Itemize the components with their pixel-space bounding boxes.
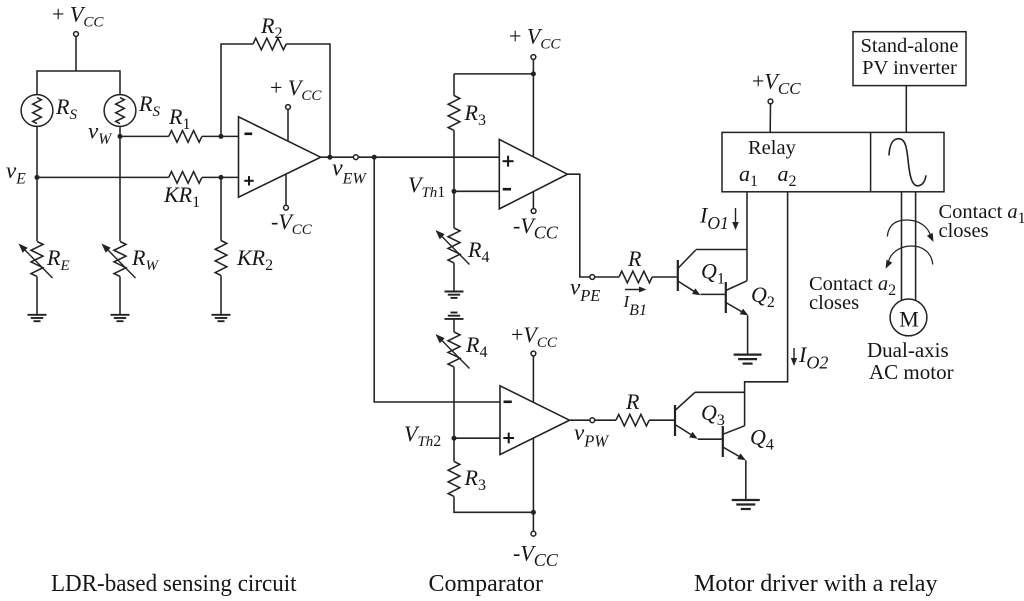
- terminal +Vcc (comparator B): [531, 351, 536, 356]
- U2 -Vcc pin terminal: [531, 209, 536, 214]
- resistor R (lower): [616, 414, 649, 426]
- wire a2 from relay to Q3/Q4 collectors: [745, 192, 788, 426]
- Q3 collector: [675, 392, 695, 410]
- Q2 emitter: [726, 303, 745, 314]
- wire RE to ground: [36, 277, 38, 315]
- R4 lower arrow: [440, 338, 470, 369]
- wire U2 output to vPE: [567, 174, 590, 277]
- motor M circle: [890, 299, 927, 336]
- svg-text:R: R: [627, 246, 642, 271]
- U1 -Vcc pin wire: [285, 175, 287, 206]
- terminal +Vcc (relay): [768, 99, 773, 104]
- svg-text:Comparator: Comparator: [429, 571, 544, 597]
- Q1 collector: [678, 250, 696, 269]
- svg-text:PV inverter: PV inverter: [862, 57, 957, 79]
- wire vEW to junction: [358, 156, 374, 158]
- node vE dot: [35, 175, 40, 180]
- wire PV inverter to relay: [905, 86, 907, 133]
- wire a1 from relay to Q1/Q2 collectors: [746, 192, 748, 281]
- wire vPW to R lower: [595, 419, 616, 421]
- wire R3 upper to VTh1: [453, 131, 455, 192]
- U2 plus sign: [503, 160, 514, 162]
- ground RW: [111, 314, 130, 316]
- wire flipped ground to R4 lower: [453, 319, 455, 332]
- wire +Vcc relay: [769, 104, 771, 133]
- wire Q3 emitter to Q4 base: [698, 438, 722, 440]
- U3 -Vcc pin wire: [532, 439, 534, 532]
- R4 upper arrow: [440, 234, 470, 265]
- transistor Q2 base bar: [725, 282, 727, 313]
- svg-text:Motor driver with a relay: Motor driver with a relay: [694, 571, 938, 597]
- wire R3 lower to -Vcc rail: [454, 497, 533, 513]
- wire U1 output: [321, 156, 354, 158]
- wire R4 upper to ground: [453, 263, 455, 291]
- U3 minus sign: [504, 400, 512, 403]
- wire VTh1 to R4 upper: [453, 191, 455, 228]
- RW arrow: [106, 248, 136, 279]
- IO2 arrow: [793, 348, 795, 361]
- Q1 emitter: [678, 281, 697, 293]
- terminal vEW: [353, 155, 358, 160]
- U1 +Vcc pin wire: [287, 109, 289, 141]
- resistor R3 (lower): [448, 462, 460, 497]
- op-amp U2 triangle: [499, 139, 567, 209]
- LDR RS (west) zigzag: [116, 98, 125, 124]
- Q4 collector: [723, 426, 745, 435]
- wire RW to ground: [119, 277, 121, 315]
- wire +Vcc B down: [532, 356, 534, 402]
- wire VTh1 to minus input A: [454, 190, 499, 192]
- node +Vcc A rail dot: [531, 71, 536, 76]
- wire VTh2 to R3 lower: [453, 438, 455, 461]
- relay box: [722, 132, 944, 191]
- wire +Vcc A down: [532, 59, 534, 157]
- +Vcc terminal (sensing): [74, 32, 79, 37]
- terminal vPW: [590, 418, 595, 423]
- wire U3 output to vPW: [570, 419, 591, 421]
- RE arrow: [23, 248, 53, 279]
- wire R1 to inverting input: [202, 135, 239, 137]
- resistor R1: [169, 131, 202, 143]
- variable resistor RW: [114, 242, 126, 277]
- U1 minus sign: [245, 133, 253, 136]
- LDR RS (west) circle: [104, 95, 136, 127]
- relay AC sine symbol: [889, 139, 926, 186]
- op-amp U1 triangle: [239, 117, 321, 197]
- wire to R3 upper: [453, 74, 455, 96]
- variable resistor R4 (upper): [448, 228, 460, 263]
- wire vPE to R: [595, 276, 619, 278]
- wire R lower to Q3 base: [649, 419, 674, 421]
- wire +Vcc rail to R3a: [454, 73, 533, 75]
- U1 -Vcc pin terminal: [284, 205, 289, 210]
- wire vE to KR1: [37, 176, 169, 178]
- rotation arc (contact a1): [887, 220, 931, 237]
- wire motor shaft left: [901, 192, 903, 301]
- relay box divider: [870, 132, 872, 191]
- resistor R3 (upper): [448, 96, 460, 131]
- svg-text:LDR-based sensing circuit: LDR-based sensing circuit: [51, 571, 297, 597]
- svg-text:closes: closes: [939, 220, 989, 242]
- wire +Vcc down to rail: [75, 36, 77, 71]
- ground R4 upper: [445, 291, 464, 293]
- wire KR2 to ground: [220, 276, 222, 315]
- Q3 emitter: [675, 425, 694, 437]
- wire Q1 emitter to Q2 base: [701, 293, 725, 295]
- wire east branch vertical: [36, 126, 38, 241]
- ground Q4: [732, 499, 760, 501]
- IO1 arrow: [735, 208, 737, 225]
- transistor Q3 base bar: [674, 405, 676, 436]
- svg-text:Dual-axis: Dual-axis: [867, 338, 949, 362]
- resistor R (upper): [619, 271, 652, 283]
- terminal vPE: [590, 275, 595, 280]
- node vW dot: [118, 134, 123, 139]
- Q2 collector: [726, 281, 747, 291]
- node -Vcc rail dot: [531, 510, 536, 515]
- wire Q1 collector rail: [696, 249, 747, 251]
- node vEW junction dot: [372, 155, 377, 160]
- U3 -Vcc terminal: [531, 531, 536, 536]
- svg-text:Stand-alone: Stand-alone: [861, 35, 959, 57]
- wire Q4 emitter to ground: [745, 460, 747, 499]
- wire R4 lower to VTh2: [453, 367, 455, 438]
- wire vW to R1: [120, 135, 169, 137]
- PV inverter box: [853, 32, 966, 86]
- svg-text:AC motor: AC motor: [869, 360, 954, 384]
- transistor Q4 base bar: [722, 426, 724, 457]
- wire vEW to comparator A plus input: [374, 156, 499, 158]
- U1 plus sign: [244, 180, 253, 182]
- LDR RS (east) circle: [21, 95, 53, 127]
- wire Q2 emitter to ground: [747, 315, 749, 353]
- wire west branch vertical: [119, 126, 121, 241]
- op-amp U3 triangle: [500, 386, 570, 455]
- node VTh2 dot: [452, 436, 457, 441]
- node inverting input dot: [219, 134, 224, 139]
- wire feedback top+right: [286, 44, 330, 157]
- ground Q2: [734, 354, 762, 356]
- U1 +Vcc pin terminal: [286, 105, 291, 110]
- ground RE: [28, 314, 47, 316]
- U3 plus sign: [503, 437, 514, 439]
- node VTh1 dot: [452, 189, 457, 194]
- rotation arc (contact a2): [888, 246, 933, 265]
- wire feedback left+top: [221, 44, 253, 136]
- U2 minus sign: [503, 188, 511, 191]
- wire R to Q1 base: [652, 276, 677, 278]
- ground (flipped) above R4 lower: [451, 312, 458, 314]
- svg-text:Relay: Relay: [748, 137, 797, 159]
- resistor KR1: [169, 172, 202, 184]
- variable resistor R4 (lower): [448, 332, 460, 367]
- svg-text:closes: closes: [809, 292, 859, 314]
- ground KR2: [212, 314, 231, 316]
- wire Q3 collector rail: [695, 391, 745, 393]
- Q4 emitter: [723, 447, 743, 458]
- U2 -Vcc pin wire: [532, 192, 534, 209]
- wire top rail to LDR branches: [37, 71, 120, 95]
- variable resistor RE: [31, 242, 43, 277]
- wire VTh2 to plus input B: [454, 437, 500, 439]
- wire KR1 to non-inverting input: [202, 176, 239, 178]
- wire vEW down to comparator B minus input: [374, 157, 500, 402]
- wire motor shaft right: [915, 192, 917, 301]
- node non-inverting input dot: [219, 175, 224, 180]
- LDR RS (east) zigzag: [33, 98, 42, 124]
- wire node to KR2: [220, 177, 222, 240]
- resistor R2: [253, 38, 286, 50]
- IB1 arrow: [625, 289, 642, 291]
- node U1 output dot: [327, 155, 332, 160]
- resistor KR2: [215, 241, 227, 276]
- terminal +Vcc (comparator A): [531, 55, 536, 60]
- svg-text:M: M: [899, 307, 919, 332]
- transistor Q1 base bar: [677, 260, 679, 291]
- svg-text:R: R: [625, 389, 640, 414]
